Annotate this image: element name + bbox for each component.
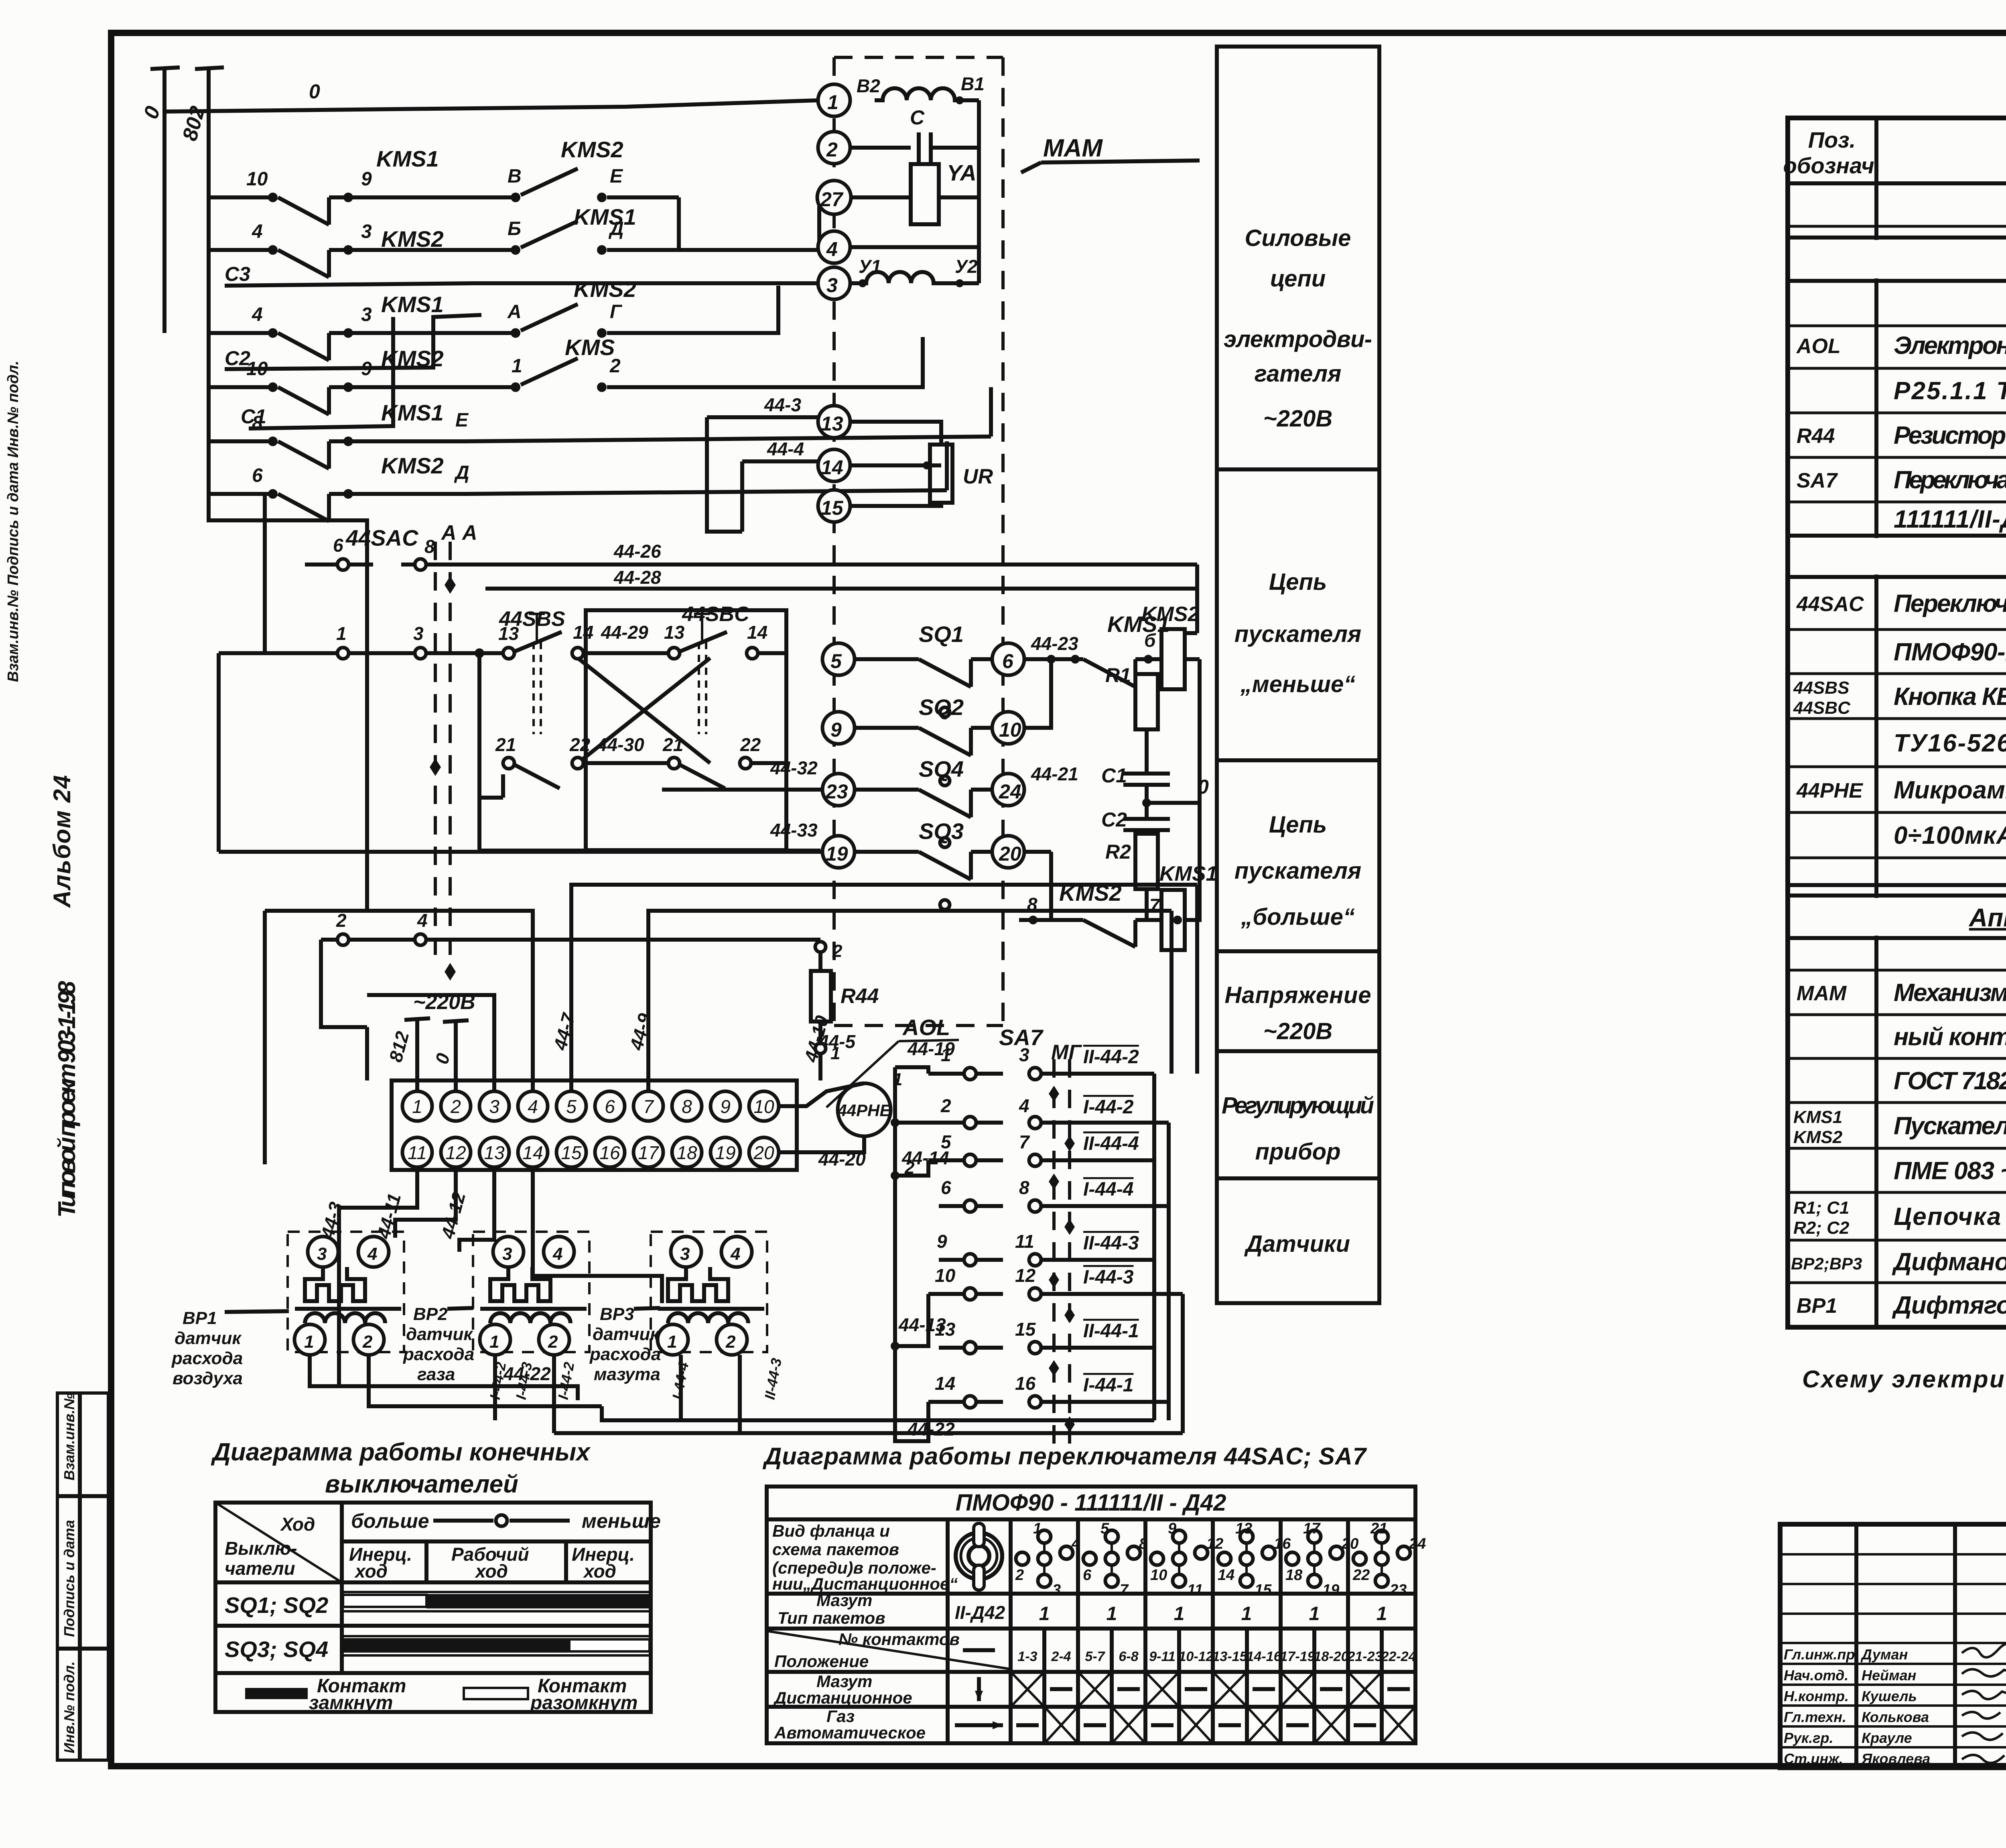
- svg-text:13-15: 13-15: [1212, 1649, 1248, 1664]
- svg-text:ный контактный МЭО-100/25 -: ный контактный МЭО-100/25 - 0.25Р: [1894, 1023, 2006, 1051]
- svg-text:20: 20: [753, 1142, 774, 1163]
- svg-text:больше: больше: [351, 1510, 429, 1532]
- svg-text:11: 11: [1015, 1231, 1034, 1252]
- svg-text:Переключатель малогабаритный П: Переключатель малогабаритный ПМОФ90-: [1894, 466, 2006, 494]
- svg-text:Дистанционное: Дистанционное: [773, 1688, 912, 1707]
- svg-text:44РНЕ: 44РНЕ: [837, 1101, 891, 1120]
- svg-text:0÷100мкА ТУ25.04- 1123-73: 0÷100мкА ТУ25.04- 1123-73: [1894, 822, 2006, 849]
- svg-text:Крауле: Крауле: [1862, 1730, 1912, 1746]
- svg-text:Гл.техн.: Гл.техн.: [1784, 1709, 1846, 1725]
- svg-text:SQ3: SQ3: [919, 818, 964, 844]
- svg-text:10-12: 10-12: [1179, 1649, 1214, 1664]
- svg-text:KMS1: KMS1: [1159, 862, 1217, 885]
- svg-text:10: 10: [999, 719, 1021, 741]
- svg-text:ход: ход: [583, 1561, 616, 1582]
- svg-text:KMS2: KMS2: [574, 276, 636, 302]
- svg-text:6: 6: [252, 465, 263, 486]
- svg-text:8: 8: [1019, 1177, 1029, 1198]
- svg-text:1-3: 1-3: [1017, 1649, 1037, 1664]
- svg-text:II-44-4: II-44-4: [1083, 1133, 1139, 1154]
- svg-text:ПМОФ90 - 111111/II - Д42: ПМОФ90 - 111111/II - Д42: [956, 1490, 1226, 1516]
- svg-text:II-44-2: II-44-2: [1083, 1046, 1139, 1068]
- svg-text:18: 18: [1285, 1567, 1303, 1584]
- svg-text:датчик: датчик: [175, 1328, 242, 1348]
- svg-text:9: 9: [937, 1231, 947, 1252]
- svg-text:16: 16: [1015, 1373, 1036, 1394]
- svg-text:44-3: 44-3: [764, 394, 801, 415]
- svg-text:Н.контр.: Н.контр.: [1784, 1688, 1849, 1704]
- svg-text:Положение: Положение: [774, 1652, 869, 1671]
- svg-text:R44: R44: [841, 985, 879, 1008]
- svg-text:Е: Е: [610, 166, 623, 187]
- svg-text:SQ1: SQ1: [919, 621, 964, 647]
- svg-text:9: 9: [830, 719, 842, 741]
- svg-text:12: 12: [1206, 1535, 1223, 1552]
- svg-text:5: 5: [566, 1096, 577, 1117]
- svg-text:1: 1: [412, 1096, 422, 1117]
- svg-text:пускателя: пускателя: [1234, 621, 1361, 647]
- svg-text:Мазут: Мазут: [816, 1672, 872, 1691]
- svg-text:KMS1: KMS1: [376, 146, 439, 171]
- svg-text:15: 15: [561, 1142, 582, 1163]
- svg-text:44-19: 44-19: [907, 1038, 955, 1059]
- svg-text:23: 23: [1389, 1582, 1407, 1598]
- svg-text:9: 9: [720, 1096, 731, 1117]
- svg-text:11: 11: [408, 1142, 427, 1163]
- svg-text:Дифманометр ДМ ТУ25.05.1489-7: Дифманометр ДМ ТУ25.05.1489-73: [1892, 1248, 2006, 1276]
- svg-text:Инв.№ подл.: Инв.№ подл.: [61, 1661, 77, 1753]
- svg-text:1: 1: [336, 623, 347, 644]
- svg-text:21: 21: [495, 734, 516, 755]
- svg-text:4: 4: [252, 304, 263, 325]
- svg-text:схема пакетов: схема пакетов: [772, 1540, 899, 1559]
- svg-text:44SAC: 44SAC: [345, 525, 419, 550]
- svg-text:KMS1: KMS1: [381, 400, 444, 425]
- svg-text:5: 5: [1100, 1520, 1109, 1537]
- svg-text:15: 15: [1255, 1582, 1272, 1598]
- svg-text:замкнут: замкнут: [309, 1692, 393, 1714]
- svg-text:„больше“: „больше“: [1241, 904, 1355, 930]
- svg-text:1: 1: [1039, 1603, 1050, 1625]
- svg-text:3: 3: [1019, 1044, 1029, 1065]
- svg-text:Аппаратура по месту: Аппаратура по месту: [1968, 903, 2006, 932]
- svg-text:SQ2: SQ2: [919, 695, 964, 720]
- svg-text:44-26: 44-26: [613, 541, 661, 562]
- svg-text:21-23: 21-23: [1347, 1649, 1383, 1664]
- svg-text:KMS2: KMS2: [1793, 1127, 1843, 1147]
- svg-text:14: 14: [522, 1142, 543, 1163]
- svg-text:44-30: 44-30: [597, 734, 644, 755]
- svg-text:5-7: 5-7: [1085, 1649, 1105, 1664]
- svg-text:4: 4: [826, 238, 838, 260]
- svg-text:18-20: 18-20: [1314, 1649, 1349, 1664]
- svg-text:2: 2: [832, 941, 843, 961]
- svg-text:10: 10: [1150, 1567, 1167, 1584]
- svg-text:2: 2: [362, 1332, 373, 1352]
- svg-text:Вид фланца и: Вид фланца и: [772, 1521, 890, 1540]
- svg-text:3: 3: [826, 274, 838, 296]
- svg-text:8: 8: [424, 536, 435, 557]
- svg-text:Д: Д: [454, 462, 469, 483]
- svg-text:б: б: [1144, 630, 1156, 651]
- svg-text:Рук.гр.: Рук.гр.: [1784, 1730, 1833, 1746]
- svg-text:I-44-2: I-44-2: [1083, 1097, 1134, 1118]
- svg-text:R1; C1: R1; C1: [1793, 1198, 1849, 1218]
- svg-text:С: С: [910, 106, 925, 129]
- svg-text:18: 18: [676, 1142, 697, 1163]
- svg-text:Цепь: Цепь: [1269, 569, 1327, 595]
- svg-text:27: 27: [820, 188, 844, 211]
- svg-text:2: 2: [940, 1095, 951, 1116]
- svg-text:SA7: SA7: [1797, 469, 1838, 492]
- svg-text:8: 8: [682, 1096, 692, 1117]
- svg-text:4: 4: [1019, 1095, 1029, 1116]
- svg-text:YA: YA: [947, 160, 977, 185]
- svg-text:МАМ: МАМ: [1797, 982, 1847, 1005]
- svg-text:15: 15: [1015, 1319, 1036, 1340]
- svg-text:12: 12: [1015, 1265, 1036, 1286]
- svg-text:Нейман: Нейман: [1862, 1667, 1917, 1684]
- svg-text:6-8: 6-8: [1119, 1649, 1138, 1664]
- svg-text:6: 6: [941, 1177, 951, 1198]
- svg-text:AOL: AOL: [902, 1015, 950, 1040]
- svg-text:44-29: 44-29: [601, 622, 648, 643]
- svg-text:датчик: датчик: [593, 1324, 660, 1344]
- svg-text:24: 24: [999, 780, 1021, 803]
- svg-text:1: 1: [1174, 1603, 1185, 1625]
- svg-text:пускателя: пускателя: [1234, 858, 1361, 884]
- svg-text:R1: R1: [1105, 664, 1131, 686]
- svg-text:8: 8: [252, 412, 263, 434]
- svg-text:ВР2;ВР3: ВР2;ВР3: [1791, 1254, 1862, 1273]
- svg-text:У2: У2: [955, 256, 978, 277]
- svg-text:17: 17: [638, 1142, 659, 1163]
- svg-text:R2: R2: [1105, 841, 1131, 863]
- svg-text:0: 0: [1198, 776, 1209, 798]
- svg-text:7: 7: [1120, 1582, 1129, 1598]
- svg-text:В2: В2: [857, 75, 880, 96]
- svg-text:ПМЕ 083 ~220В ОСТ 16.0536.00: ПМЕ 083 ~220В ОСТ 16.0536.001-72: [1894, 1157, 2006, 1185]
- svg-text:Поз.: Поз.: [1808, 127, 1856, 152]
- svg-text:МГ: МГ: [1051, 1041, 1082, 1064]
- svg-text:Силовые: Силовые: [1245, 225, 1351, 251]
- svg-text:II-Д42: II-Д42: [955, 1602, 1005, 1623]
- svg-text:1: 1: [304, 1332, 314, 1352]
- svg-text:Цепь: Цепь: [1269, 812, 1327, 838]
- svg-text:0: 0: [309, 80, 320, 103]
- svg-text:3: 3: [361, 221, 372, 242]
- svg-text:SQ4: SQ4: [919, 756, 964, 782]
- svg-text:22: 22: [1352, 1567, 1370, 1584]
- svg-text:ГОСТ 7182 -80Е: ГОСТ 7182 -80Е: [1894, 1067, 2006, 1095]
- svg-text:1: 1: [1309, 1603, 1320, 1625]
- svg-text:16: 16: [1274, 1535, 1291, 1552]
- svg-text:10: 10: [753, 1096, 774, 1117]
- svg-text:9: 9: [1168, 1520, 1176, 1537]
- svg-text:ВР1: ВР1: [183, 1308, 217, 1328]
- svg-text:Дифтягомер ДТ2 ТУ25.05. 1489: Дифтягомер ДТ2 ТУ25.05. 1489-73: [1892, 1292, 2006, 1319]
- svg-text:5: 5: [830, 650, 842, 672]
- svg-text:разомкнут: разомкнут: [530, 1692, 638, 1714]
- svg-text:Д: Д: [608, 218, 624, 240]
- svg-text:Тип пакетов: Тип пакетов: [778, 1608, 885, 1627]
- svg-text:Микроамперметр М4206 шкала: Микроамперметр М4206 шкала: [1894, 776, 2006, 804]
- svg-text:ход: ход: [354, 1561, 388, 1582]
- svg-text:4: 4: [528, 1096, 538, 1117]
- svg-text:воздуха: воздуха: [173, 1369, 243, 1388]
- svg-text:44РНЕ: 44РНЕ: [1796, 779, 1863, 802]
- svg-text:R2; C2: R2; C2: [1793, 1218, 1850, 1238]
- svg-text:3: 3: [489, 1096, 499, 1117]
- svg-text:2: 2: [609, 355, 621, 377]
- svg-text:меньше: меньше: [582, 1510, 661, 1532]
- svg-text:SQ3; SQ4: SQ3; SQ4: [225, 1637, 328, 1662]
- svg-text:9: 9: [361, 358, 372, 380]
- svg-text:обознач.: обознач.: [1783, 153, 1881, 178]
- svg-text:2: 2: [336, 910, 347, 931]
- svg-text:4: 4: [1071, 1535, 1080, 1552]
- svg-text:19: 19: [1322, 1582, 1339, 1598]
- svg-text:I-44-1: I-44-1: [1083, 1375, 1133, 1396]
- svg-text:14: 14: [747, 622, 767, 643]
- svg-text:6: 6: [1083, 1567, 1092, 1584]
- svg-text:~220В: ~220В: [1263, 1018, 1333, 1044]
- svg-text:прибор: прибор: [1255, 1139, 1340, 1165]
- svg-text:10: 10: [246, 169, 268, 190]
- svg-text:UR: UR: [963, 465, 993, 488]
- svg-text:21: 21: [1370, 1520, 1387, 1537]
- svg-text:Ст.инж.: Ст.инж.: [1784, 1751, 1843, 1767]
- svg-text:Пускатель магнитный реверсивн: Пускатель магнитный реверсивный: [1894, 1112, 2006, 1140]
- svg-text:44-22: 44-22: [907, 1419, 955, 1440]
- svg-text:Мазут: Мазут: [816, 1591, 872, 1610]
- svg-text:44-5: 44-5: [818, 1031, 856, 1052]
- svg-text:22: 22: [740, 734, 761, 755]
- svg-text:22: 22: [569, 734, 591, 755]
- svg-text:Е: Е: [455, 410, 469, 431]
- svg-text:Переключатель малогабаритный: Переключатель малогабаритный: [1894, 590, 2006, 617]
- svg-text:22-24: 22-24: [1381, 1649, 1416, 1664]
- svg-text:1: 1: [1377, 1603, 1387, 1625]
- svg-text:3: 3: [413, 623, 424, 644]
- svg-text:газа: газа: [417, 1365, 455, 1384]
- svg-text:гателя: гателя: [1255, 361, 1341, 387]
- svg-text:7: 7: [1019, 1131, 1030, 1152]
- svg-text:Гл.инж.пр.: Гл.инж.пр.: [1784, 1646, 1859, 1663]
- svg-text:44-23: 44-23: [1031, 633, 1078, 654]
- svg-text:44-13: 44-13: [898, 1314, 946, 1335]
- svg-text:R44: R44: [1797, 424, 1835, 448]
- svg-text:Ход: Ход: [280, 1514, 315, 1535]
- svg-text:расхода: расхода: [589, 1344, 661, 1364]
- svg-text:2: 2: [826, 138, 838, 161]
- svg-text:KMS2: KMS2: [1141, 603, 1200, 626]
- svg-text:ВР2: ВР2: [413, 1304, 448, 1324]
- svg-text:Яковлева: Яковлева: [1861, 1751, 1930, 1767]
- svg-text:ход: ход: [474, 1561, 508, 1582]
- svg-text:ВР3: ВР3: [600, 1304, 634, 1324]
- svg-text:21: 21: [662, 734, 683, 755]
- svg-text:11: 11: [1187, 1582, 1203, 1598]
- svg-text:6: 6: [605, 1096, 615, 1117]
- svg-text:44-14: 44-14: [901, 1147, 949, 1168]
- svg-text:Газ: Газ: [826, 1707, 855, 1726]
- svg-text:Диаграмма работы переключате: Диаграмма работы переключателя 44SAC; SA…: [762, 1443, 1367, 1470]
- svg-text:10: 10: [246, 358, 268, 380]
- svg-text:44SBC: 44SBC: [1793, 698, 1851, 718]
- svg-text:~220В: ~220В: [1263, 406, 1333, 432]
- svg-text:19: 19: [715, 1142, 735, 1163]
- svg-text:KMS1: KMS1: [574, 204, 636, 229]
- svg-text:2: 2: [1015, 1567, 1024, 1584]
- svg-text:6: 6: [1002, 650, 1014, 672]
- svg-text:II-44-3: II-44-3: [1083, 1233, 1139, 1254]
- svg-text:расхода: расхода: [171, 1348, 243, 1368]
- svg-text:13: 13: [821, 412, 843, 435]
- svg-text:2: 2: [450, 1096, 461, 1117]
- svg-text:Колькова: Колькова: [1862, 1709, 1929, 1725]
- svg-text:10: 10: [935, 1265, 956, 1286]
- svg-text:7: 7: [643, 1096, 654, 1117]
- svg-text:14: 14: [573, 622, 593, 643]
- svg-text:В1: В1: [961, 73, 985, 94]
- svg-text:Типовой проект 903-1-198: Типовой проект 903-1-198: [53, 981, 80, 1218]
- svg-text:Кушель: Кушель: [1862, 1688, 1917, 1704]
- svg-text:19: 19: [826, 843, 848, 865]
- svg-text:9: 9: [361, 169, 372, 190]
- svg-text:Электронный регулирующий при: Электронный регулирующий прибор: [1894, 332, 2006, 359]
- svg-text:выключателей: выключателей: [325, 1470, 518, 1498]
- svg-text:44-4: 44-4: [767, 439, 804, 459]
- svg-text:KMS2: KMS2: [561, 137, 623, 162]
- svg-text:3: 3: [1052, 1582, 1061, 1598]
- svg-text:1: 1: [512, 355, 522, 377]
- svg-text:6: 6: [333, 535, 343, 556]
- svg-text:14: 14: [935, 1373, 955, 1394]
- svg-text:С1: С1: [1101, 764, 1127, 787]
- svg-text:KMS2: KMS2: [381, 453, 444, 478]
- svg-text:44-21: 44-21: [1031, 764, 1078, 784]
- svg-text:14: 14: [1218, 1567, 1234, 1584]
- svg-text:Механизм электрический одноо: Механизм электрический однооборот-: [1894, 979, 2006, 1007]
- svg-text:13: 13: [498, 623, 519, 644]
- svg-text:Схему электрического питания: Схему электрического питания см. черт. А…: [1802, 1366, 2006, 1393]
- svg-text:44-33: 44-33: [770, 820, 818, 841]
- svg-text:1: 1: [827, 91, 839, 114]
- svg-text:23: 23: [825, 780, 848, 803]
- svg-text:44-28: 44-28: [613, 567, 661, 588]
- svg-text:электродви-: электродви-: [1224, 326, 1372, 352]
- svg-text:20: 20: [1341, 1535, 1358, 1552]
- svg-text:датчик: датчик: [406, 1324, 473, 1344]
- svg-text:Нач.отд.: Нач.отд.: [1784, 1667, 1848, 1684]
- svg-text:15: 15: [821, 497, 844, 519]
- svg-text:16: 16: [599, 1142, 620, 1163]
- svg-text:14: 14: [821, 456, 843, 479]
- svg-text:4: 4: [252, 221, 263, 242]
- svg-text:3: 3: [317, 1244, 327, 1264]
- svg-text:44-32: 44-32: [770, 757, 818, 778]
- svg-text:нии„Дистанционное“: нии„Дистанционное“: [772, 1574, 958, 1593]
- svg-text:24: 24: [1409, 1535, 1426, 1552]
- svg-text:14-16: 14-16: [1247, 1649, 1282, 1664]
- svg-text:Цепочка RС: Цепочка RС: [1894, 1203, 2006, 1231]
- svg-text:8: 8: [1139, 1535, 1148, 1552]
- svg-text:I-44-4: I-44-4: [1083, 1179, 1133, 1200]
- svg-text:4: 4: [367, 1244, 377, 1264]
- svg-text:1: 1: [1033, 1520, 1042, 1537]
- svg-text:1: 1: [1107, 1603, 1117, 1625]
- svg-text:Автоматическое: Автоматическое: [774, 1723, 926, 1742]
- svg-text:Датчики: Датчики: [1244, 1231, 1350, 1257]
- svg-text:Думан: Думан: [1860, 1646, 1908, 1663]
- svg-text:А: А: [507, 301, 522, 323]
- svg-text:I-44-3: I-44-3: [1083, 1267, 1134, 1288]
- svg-text:12: 12: [445, 1142, 466, 1163]
- svg-text:Взам.инв.№ Подпись и дата: Взам.инв.№ Подпись и дата Инв.№ подл.: [5, 361, 22, 682]
- svg-text:SQ1; SQ2: SQ1; SQ2: [225, 1592, 328, 1618]
- svg-text:C3: C3: [225, 263, 250, 285]
- svg-text:3: 3: [361, 304, 372, 325]
- svg-text:Кнопка КЕ-011УЗ исполнение 2;: Кнопка КЕ-011УЗ исполнение 2; ~500В: [1894, 683, 2006, 711]
- svg-text:13: 13: [1235, 1520, 1252, 1537]
- svg-text:20: 20: [999, 843, 1021, 865]
- svg-text:17: 17: [1303, 1520, 1321, 1537]
- svg-text:Г: Г: [610, 301, 623, 323]
- svg-text:расхода: расхода: [403, 1344, 474, 1364]
- svg-text:ТУ16-526.407-76: ТУ16-526.407-76: [1894, 729, 2006, 757]
- svg-text:44SBC: 44SBC: [682, 603, 750, 626]
- svg-text:чатели: чатели: [225, 1558, 295, 1579]
- svg-text:13: 13: [484, 1142, 505, 1163]
- svg-text:4: 4: [417, 910, 428, 931]
- svg-text:Диаграмма работы конечных: Диаграмма работы конечных: [211, 1438, 591, 1466]
- svg-text:1: 1: [1241, 1603, 1252, 1625]
- svg-text:Резистор МЛТ 2кОм; 2Вт ГОСТ 71: Резистор МЛТ 2кОм; 2Вт ГОСТ 7113-77Е: [1894, 422, 2006, 449]
- svg-text:KMS1: KMS1: [1793, 1107, 1842, 1127]
- svg-text:13: 13: [664, 622, 685, 643]
- svg-text:Регулирующий: Регулирующий: [1222, 1093, 1374, 1119]
- svg-text:Подпись и дата: Подпись и дата: [61, 1520, 77, 1637]
- svg-text:„меньше“: „меньше“: [1240, 671, 1355, 697]
- svg-text:KMS1: KMS1: [381, 292, 444, 317]
- svg-text:ВР1: ВР1: [1797, 1294, 1837, 1318]
- svg-text:9-11: 9-11: [1149, 1649, 1176, 1664]
- svg-text:Напряжение: Напряжение: [1225, 982, 1371, 1008]
- svg-text:44SAC: 44SAC: [1796, 593, 1864, 616]
- svg-text:KMS2: KMS2: [381, 226, 444, 252]
- svg-text:KMS2: KMS2: [381, 346, 444, 371]
- svg-text:Б: Б: [508, 218, 521, 240]
- svg-text:А А: А А: [441, 521, 477, 544]
- svg-text:AOL: AOL: [1796, 335, 1841, 358]
- svg-text:Взам.инв.№: Взам.инв.№: [61, 1393, 77, 1480]
- svg-text:44SBS: 44SBS: [1793, 678, 1849, 698]
- svg-text:111111/II-Д42 ТУ16-526.128-75: 111111/II-Д42 ТУ16-526.128-75: [1894, 506, 2006, 533]
- svg-text:Выклю-: Выклю-: [225, 1538, 297, 1559]
- svg-text:II-44-1: II-44-1: [1083, 1320, 1139, 1342]
- svg-text:цепи: цепи: [1270, 266, 1326, 292]
- svg-text:МАМ: МАМ: [1043, 134, 1103, 162]
- svg-text:мазута: мазута: [594, 1365, 660, 1384]
- svg-text:Альбом 24: Альбом 24: [49, 775, 75, 908]
- svg-text:В: В: [508, 166, 522, 187]
- svg-text:2-4: 2-4: [1051, 1649, 1071, 1664]
- svg-text:С2: С2: [1101, 808, 1127, 831]
- svg-text:ПМОФ90-111111/II-Д42 ТУ16-526: ПМОФ90-111111/II-Д42 ТУ16-526.128-75: [1894, 638, 2006, 666]
- svg-text:KMS: KMS: [565, 335, 615, 360]
- svg-text:17-19: 17-19: [1280, 1649, 1315, 1664]
